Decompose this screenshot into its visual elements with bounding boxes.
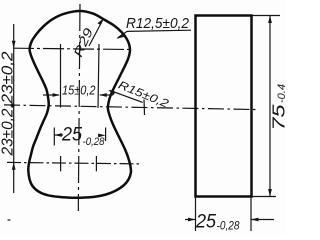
svg-text:R12,5±0,2: R12,5±0,2 (126, 16, 189, 32)
25-dim extension line right (105, 128, 107, 142)
svg-text:23±0,2: 23±0,2 (0, 51, 17, 104)
svg-text:25: 25 (195, 211, 216, 233)
vertical center line of front view (78, 4, 80, 211)
15-dim extension line right (98, 44, 99, 108)
15-dim right arrow (100, 94, 113, 96)
side view rectangle (196, 16, 252, 197)
left 23-dim middle dot (11, 103, 15, 107)
bottom 25-dim right arrow (252, 219, 275, 221)
bottom lobe tick left (60, 156, 62, 171)
25-dim extension line left (53, 128, 55, 146)
bottom 25-dim right extension (250, 197, 252, 231)
R15 leader (110, 91, 143, 103)
svg-text:-0,28: -0,28 (83, 136, 106, 148)
25-dim left arrow (54, 134, 63, 136)
left 23-dim top arrow (down) (12, 41, 16, 49)
R15 center tick (143, 100, 146, 116)
bottom 25-dim left extension (195, 197, 197, 231)
15-dim extension line left (60, 44, 62, 108)
speck artifact (8, 219, 11, 221)
svg-text:15±0,2: 15±0,2 (62, 83, 96, 98)
bottom lobe horizontal center line (7, 162, 141, 164)
svg-text:75: 75 (269, 104, 286, 130)
R12,5 leader arrow (118, 31, 128, 38)
25-dim right arrow (98, 134, 106, 138)
svg-text:-0,4: -0,4 (276, 84, 285, 103)
svg-text:25: 25 (61, 125, 82, 146)
75-dim bottom extension (252, 196, 276, 198)
75-dim top extension (252, 15, 280, 17)
bottom 25-dim left arrow (185, 219, 195, 221)
waist horizontal center line (4, 105, 259, 110)
R12,5 leader shelf (127, 30, 191, 31)
bottom lobe tick right (95, 156, 97, 171)
left 23-dim bottom arrow (up) (12, 162, 16, 170)
15-dim left arrow (43, 94, 59, 96)
svg-text:-0,28: -0,28 (217, 221, 241, 233)
left 23-dim line (13, 24, 15, 193)
specimen outline (front view) (28, 11, 131, 198)
svg-text:23±0,2: 23±0,2 (0, 108, 17, 156)
75-dim line (269, 16, 271, 197)
top lobe horizontal center line (13, 48, 131, 49)
R29 leader (89, 21, 103, 47)
